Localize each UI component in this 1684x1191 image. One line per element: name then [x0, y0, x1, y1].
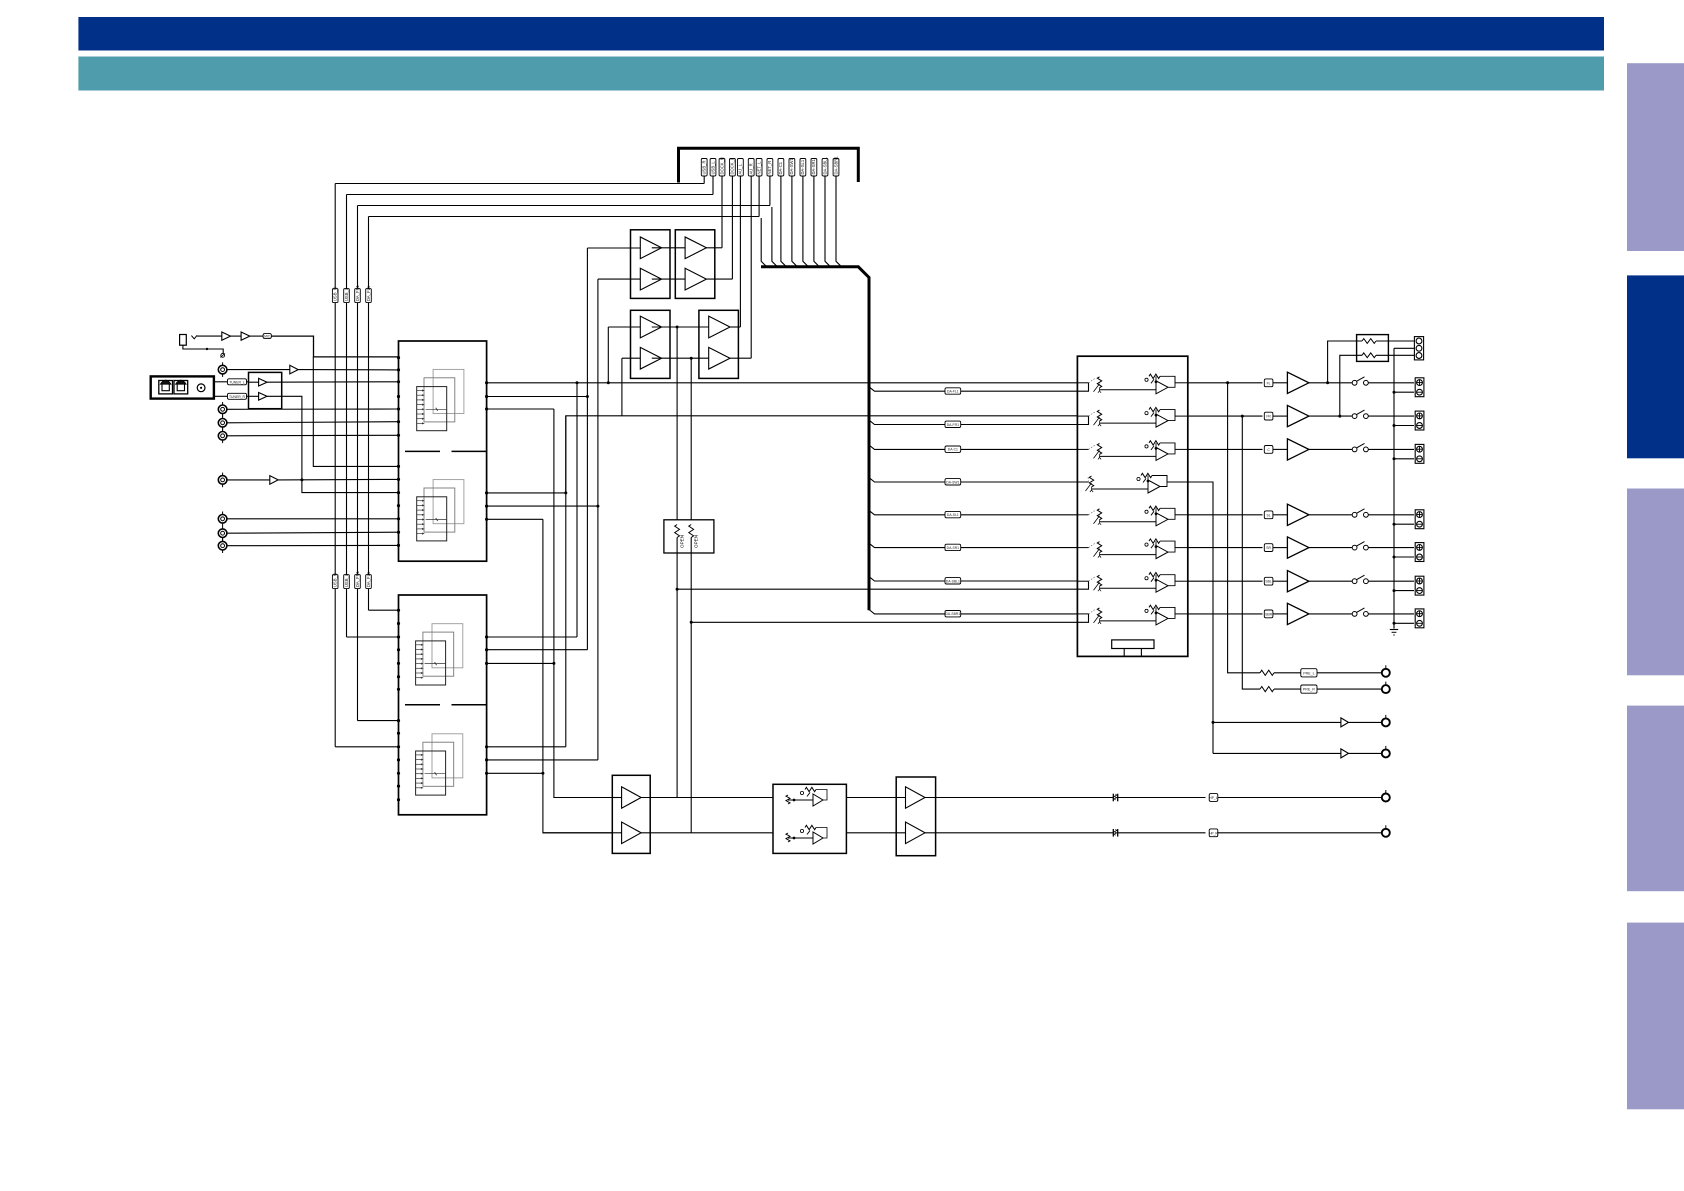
connector SW2	[1382, 749, 1390, 757]
wire	[652, 278, 685, 280]
wire NET_R drop	[769, 176, 771, 206]
net label DOCK_R	[719, 159, 725, 177]
wire SW1	[1213, 721, 1341, 723]
divider	[405, 450, 440, 452]
DAC array D	[432, 734, 463, 778]
block2 input pins	[397, 609, 400, 612]
speaker terminal SL	[1415, 510, 1424, 529]
wire	[487, 662, 554, 664]
net label USB_L	[710, 159, 716, 177]
resistor	[1260, 670, 1274, 675]
wire	[730, 326, 740, 328]
buffer amp	[640, 347, 661, 369]
connector PB L	[218, 515, 227, 524]
riser	[597, 279, 599, 760]
wire front panel split	[313, 357, 398, 467]
DSP block IC601	[399, 341, 487, 561]
connector PHONES L	[1382, 794, 1390, 802]
wire	[1368, 448, 1414, 450]
bus branch row2	[869, 420, 1077, 424]
net label DA-SBL1	[822, 159, 828, 177]
wire row6 out	[1188, 547, 1263, 549]
svg-text:OPEN: OPEN	[680, 535, 685, 548]
bus branch row1	[869, 387, 1077, 391]
riser FR tap	[690, 358, 692, 520]
wire terminal return	[1394, 622, 1414, 624]
net label DA-SW1	[789, 159, 795, 177]
wire	[846, 832, 905, 834]
wire	[730, 357, 751, 359]
riser	[565, 416, 567, 747]
wire TUNER_L to pin	[267, 381, 399, 383]
svg-text:FL: FL	[1267, 381, 1271, 385]
svg-text:USB_R: USB_R	[333, 573, 338, 587]
wire	[1118, 797, 1206, 799]
sidebar tab 5	[1627, 923, 1684, 1110]
panel coax jack	[197, 384, 205, 392]
wire terminal return	[1394, 590, 1414, 592]
buffer amp	[259, 378, 267, 386]
svg-text:DA_FL1: DA_FL1	[366, 571, 371, 587]
wire	[1317, 672, 1382, 674]
riser	[586, 248, 588, 650]
block1 output pins	[485, 381, 488, 384]
bus branch row7	[869, 577, 1077, 581]
hp buffer box U607	[612, 775, 650, 853]
wire	[227, 369, 290, 371]
wire bus drop	[803, 176, 809, 267]
riser FL tap	[676, 327, 678, 520]
wire row2 FR	[487, 416, 1078, 493]
wire	[250, 335, 263, 337]
wire	[197, 335, 222, 337]
net line DA_FR1	[357, 206, 359, 289]
svg-text:DOCK_R: DOCK_R	[719, 157, 724, 174]
riser	[690, 538, 692, 554]
svg-text:SL: SL	[1267, 513, 1271, 517]
svg-text:NET_R: NET_R	[767, 161, 772, 175]
wire	[1368, 613, 1414, 615]
junction	[586, 395, 589, 398]
junction	[596, 505, 599, 508]
wire USB_R top	[335, 183, 704, 185]
divider	[405, 704, 440, 706]
riser	[607, 327, 609, 383]
wire HP R	[543, 832, 612, 834]
wire	[1274, 688, 1301, 690]
wire USB_R drop	[703, 176, 705, 184]
buffer amp	[241, 332, 250, 340]
wire	[1118, 832, 1206, 834]
volume row3 cell	[1077, 448, 1088, 450]
label FR	[1264, 412, 1273, 420]
wire NET_L bus jog	[761, 218, 767, 267]
wire to DSP2 pin	[358, 720, 399, 722]
svg-text:HP_L: HP_L	[1210, 796, 1218, 800]
label DA-SBR1	[945, 611, 961, 617]
wire	[214, 381, 228, 383]
riser	[554, 409, 612, 798]
wire	[1317, 688, 1382, 690]
connector PB R	[218, 529, 227, 538]
wire	[1273, 514, 1288, 516]
svg-text:DA_FL1: DA_FL1	[366, 285, 371, 301]
cap	[1112, 829, 1114, 837]
net label DOCK_L	[730, 159, 736, 177]
connector AUDIO2 R	[218, 419, 227, 428]
cap	[1112, 794, 1114, 802]
svg-text:DA-FR1: DA-FR1	[947, 423, 959, 427]
connector AUDIO3	[218, 432, 227, 441]
net label USB_R	[701, 159, 707, 177]
junction	[690, 621, 693, 624]
volume block IC701	[1077, 356, 1187, 656]
label DA_FR1	[355, 289, 361, 303]
svg-text:SBL: SBL	[1265, 580, 1272, 584]
divider	[452, 450, 487, 452]
speaker terminal SR	[1415, 543, 1424, 562]
stub	[1140, 649, 1142, 657]
wire bus drop	[792, 176, 798, 267]
jack switch	[191, 335, 197, 339]
wire	[1349, 752, 1382, 754]
wire in	[249, 395, 259, 397]
svg-text:DA-SBR1: DA-SBR1	[833, 156, 838, 175]
buffer amp	[906, 787, 926, 809]
wire	[641, 797, 773, 799]
resistor	[1260, 687, 1274, 692]
usb ports	[159, 381, 173, 394]
wire tap FR	[1340, 355, 1362, 416]
junction	[690, 357, 693, 360]
buffer amp	[622, 787, 642, 809]
svg-text:DA-SR1: DA-SR1	[811, 158, 816, 174]
wire USB_L top	[347, 194, 714, 196]
riser	[576, 383, 578, 637]
wire	[652, 357, 709, 359]
buffer amp	[622, 822, 642, 844]
wire pre FR	[1242, 416, 1260, 689]
wire	[1309, 613, 1352, 615]
header navy bar	[78, 17, 1604, 51]
net label NET_L	[756, 159, 762, 177]
wire	[227, 518, 399, 520]
relay switch	[1352, 380, 1357, 385]
wire row2 out	[1188, 415, 1263, 417]
power amp SL	[1287, 504, 1309, 525]
speaker terminal C	[1415, 444, 1424, 463]
wire to DSP2 pin	[347, 636, 399, 638]
label USB_R	[332, 289, 338, 303]
buffer amp	[685, 268, 706, 290]
label PRE-FR	[1301, 685, 1317, 693]
wire	[1273, 382, 1288, 384]
junction	[1326, 381, 1329, 384]
speaker terminal SBR	[1415, 609, 1424, 628]
wire	[1273, 547, 1288, 549]
svg-text:DA-C1: DA-C1	[948, 448, 958, 452]
net label AU_R	[748, 159, 754, 177]
ground	[221, 354, 225, 358]
svg-text:HP_R: HP_R	[1209, 831, 1218, 835]
wire	[1273, 580, 1288, 582]
buffer amp	[270, 476, 278, 485]
svg-text:DA_FR1: DA_FR1	[355, 570, 360, 587]
wire	[487, 649, 588, 651]
junction	[552, 662, 555, 665]
wire	[1349, 721, 1382, 723]
thick bus to volume block	[761, 267, 869, 610]
speaker terminal SBL	[1415, 576, 1424, 595]
volume row5 cell	[1077, 514, 1088, 516]
net line USB_R	[334, 184, 336, 289]
label SBR	[1264, 610, 1273, 618]
power amp SR	[1287, 537, 1309, 558]
junction	[607, 381, 610, 384]
junction	[1393, 523, 1396, 526]
jack sleeve wire	[183, 345, 223, 353]
svg-text:DA-SBL1: DA-SBL1	[822, 156, 827, 174]
label DA-SBL1	[945, 578, 961, 584]
wire	[652, 326, 709, 328]
label HP-R	[1209, 829, 1218, 837]
wire	[1376, 340, 1414, 342]
wire	[487, 396, 588, 398]
wire	[587, 247, 640, 249]
junction	[1393, 457, 1396, 460]
wire to pin	[278, 478, 398, 481]
wire terminal return	[1394, 391, 1414, 393]
wire	[487, 408, 554, 410]
net line DA_FL1	[368, 303, 370, 575]
junction	[564, 491, 567, 494]
phones jack J601	[180, 335, 187, 346]
label HP-L	[1209, 794, 1218, 802]
resistor	[1362, 339, 1376, 344]
wire	[487, 636, 577, 638]
block1 input pins	[397, 356, 400, 359]
wire SW down	[1188, 482, 1213, 753]
buffer amp	[1341, 749, 1349, 758]
junction	[1393, 622, 1396, 625]
volume row6 cell	[1077, 547, 1088, 549]
junction	[1226, 381, 1229, 384]
hp driver box U609	[896, 777, 935, 856]
wire	[598, 278, 640, 280]
net line DA_FR1	[357, 303, 359, 575]
buffer amp	[222, 332, 231, 340]
net line DA_FL1	[368, 589, 370, 611]
wire to DSP2 pin	[335, 746, 398, 748]
power amp FR	[1287, 405, 1309, 426]
label DA_FL1	[366, 575, 372, 589]
wire terminal return	[1394, 523, 1414, 525]
resistor	[1362, 353, 1376, 358]
bus branch row4	[869, 478, 1077, 482]
buffer box U603	[631, 230, 671, 299]
wire	[227, 532, 399, 533]
label USB_R	[332, 575, 338, 589]
wire DOCK_R drop	[721, 176, 723, 248]
header teal bar	[78, 57, 1604, 91]
svg-text:FR: FR	[1266, 415, 1271, 419]
riser	[621, 358, 623, 416]
wire	[227, 422, 399, 423]
bus ground	[1390, 629, 1398, 631]
power amp C	[1287, 439, 1309, 460]
wire USB_L drop	[712, 176, 714, 195]
relay switch	[1352, 579, 1357, 584]
wire bus drop	[836, 176, 842, 267]
buffer amp	[640, 316, 661, 338]
buffer amp	[1341, 718, 1349, 727]
svg-text:AU_L: AU_L	[738, 163, 743, 174]
junction	[576, 381, 579, 384]
wire row8 SBR	[691, 621, 1077, 623]
DAC array A	[433, 369, 464, 413]
wire AU_L drop	[739, 176, 741, 327]
svg-text:NET_L: NET_L	[756, 161, 761, 175]
connector AUDIO2 L	[218, 405, 227, 414]
wire TUNER_R down	[267, 396, 399, 492]
connector PB C	[218, 541, 227, 550]
svg-text:DA-SL1: DA-SL1	[947, 513, 959, 517]
wire NET_L drop	[758, 176, 760, 217]
junction	[1393, 391, 1396, 394]
DSP block IC602	[399, 595, 487, 815]
power amp FL	[1287, 372, 1309, 393]
buffer amp	[640, 237, 661, 259]
wire	[247, 381, 249, 383]
volume row7 input hook	[1077, 581, 1088, 589]
svg-text:PRE_R: PRE_R	[1303, 688, 1315, 692]
relay switch	[1352, 447, 1357, 452]
wire	[1368, 547, 1414, 549]
net line DA_FR1	[357, 589, 359, 721]
connector 3p	[1414, 337, 1423, 360]
net line USB_L	[346, 195, 348, 289]
buffer box U606	[699, 310, 739, 378]
relay switch	[1352, 512, 1357, 517]
wire	[1309, 448, 1352, 450]
hp opamp R	[805, 825, 816, 829]
wire	[227, 434, 399, 437]
label USB_L	[344, 289, 350, 303]
power amp SBL	[1287, 571, 1309, 592]
net line USB_L	[346, 303, 348, 575]
wire	[1218, 832, 1382, 834]
net label DA-SBR1	[833, 159, 839, 177]
connector PRE L	[1382, 669, 1390, 677]
wire	[1376, 354, 1414, 356]
junction	[300, 478, 303, 481]
wire tap FL	[1328, 341, 1362, 383]
stub	[1123, 649, 1125, 657]
wire	[487, 505, 598, 507]
label USB_L	[344, 575, 350, 589]
wire	[608, 326, 640, 328]
wire	[706, 247, 722, 249]
svg-text:USB_R: USB_R	[702, 161, 707, 175]
buffer amp	[290, 365, 298, 374]
wire	[227, 408, 399, 410]
wire	[1274, 672, 1301, 674]
label	[263, 334, 271, 339]
volume ctrl register	[1112, 640, 1154, 649]
wire	[1368, 382, 1414, 384]
bus branch row5	[869, 510, 1077, 514]
relay switch	[1352, 414, 1357, 419]
wire	[1309, 580, 1352, 582]
speaker return bus	[1393, 348, 1395, 628]
wire	[227, 479, 270, 481]
buffer amp	[259, 393, 267, 401]
wire AU_R drop	[750, 176, 752, 358]
wire	[641, 832, 773, 834]
wire	[227, 544, 399, 546]
wire row3 out	[1188, 448, 1263, 450]
wire terminal return	[1394, 458, 1414, 460]
junction	[206, 348, 208, 350]
resistor box	[1357, 335, 1389, 362]
label PRE-FL	[1301, 669, 1317, 677]
sidebar tab 4	[1627, 706, 1684, 892]
junction	[1393, 424, 1396, 427]
svg-text:DA-C1: DA-C1	[778, 161, 783, 174]
junction	[1241, 415, 1244, 418]
bus branch row3	[869, 445, 1077, 449]
tuner buffer box	[249, 372, 282, 408]
buffer box U605	[631, 310, 671, 378]
wire row1 FL	[487, 382, 1078, 384]
wire	[1273, 613, 1288, 615]
wire	[612, 832, 621, 834]
label SBL	[1264, 577, 1273, 585]
wire	[1368, 514, 1414, 516]
wire row7 out	[1188, 580, 1263, 582]
volume row2 input hook	[1077, 416, 1088, 424]
net label AU_L	[738, 159, 744, 177]
svg-text:DA-FL1: DA-FL1	[947, 390, 959, 394]
wire	[1273, 415, 1288, 417]
wire row8 out	[1188, 613, 1263, 615]
wire	[1368, 415, 1414, 417]
sidebar tab 3	[1627, 489, 1684, 676]
label DA-FL1	[945, 388, 961, 394]
volume row8 cell	[1077, 613, 1088, 615]
net label DA-SR1	[811, 159, 817, 177]
wire to DSP pin1	[271, 336, 398, 357]
wire	[487, 759, 598, 761]
wire bus drop	[825, 176, 831, 267]
wire	[231, 335, 242, 337]
net line USB_R	[334, 589, 336, 747]
junction	[1393, 556, 1396, 559]
label TUNER-L	[228, 379, 247, 385]
wire	[1309, 514, 1352, 516]
label C	[1264, 446, 1273, 454]
relay switch	[1352, 612, 1357, 617]
net line DA_FL1	[368, 217, 370, 289]
wire	[1309, 547, 1352, 549]
wire	[214, 395, 228, 397]
wire	[1394, 347, 1414, 349]
label DA_FL1	[366, 289, 372, 303]
wire row7 SBL	[677, 588, 1077, 590]
wire	[925, 797, 1114, 799]
svg-text:USB_L: USB_L	[344, 287, 349, 301]
net line USB_L	[346, 589, 348, 637]
